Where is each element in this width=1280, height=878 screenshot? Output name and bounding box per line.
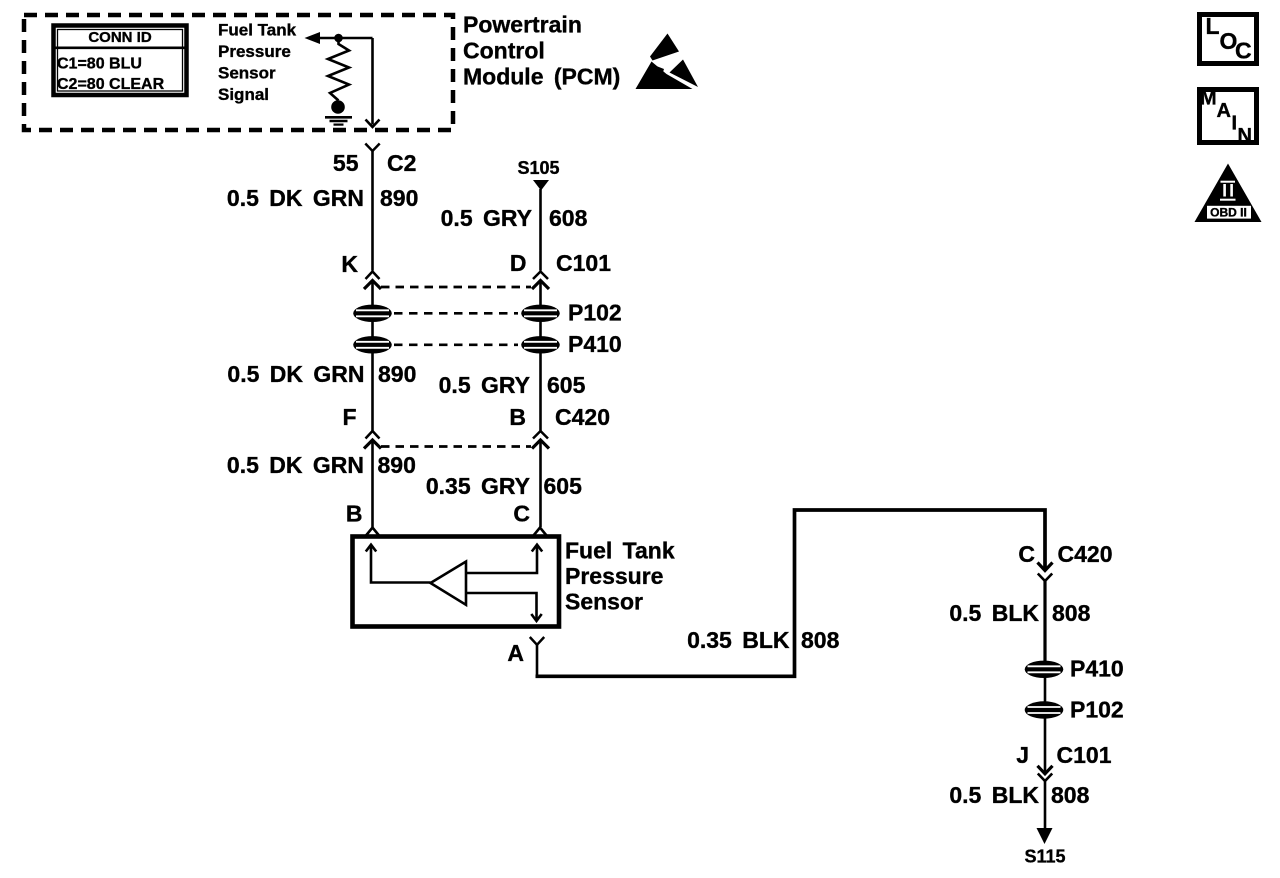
svg-text:A: A bbox=[507, 640, 524, 666]
resistor (PCM internal pull-up) bbox=[328, 38, 349, 101]
label P102 bbox=[568, 300, 622, 326]
svg-text:C1=80 BLU: C1=80 BLU bbox=[57, 56, 142, 73]
svg-text:J: J bbox=[1016, 742, 1029, 768]
svg-text:808: 808 bbox=[1052, 600, 1091, 626]
svg-text:0.5 GRY: 0.5 GRY bbox=[439, 372, 530, 398]
svg-text:808: 808 bbox=[801, 627, 840, 653]
fuel tank pressure sensor box bbox=[353, 537, 560, 627]
svg-text:OBD II: OBD II bbox=[1210, 205, 1247, 219]
sensor pin B bbox=[346, 501, 379, 536]
svg-text:Sensor: Sensor bbox=[565, 589, 643, 615]
svg-text:0.5 BLK: 0.5 BLK bbox=[949, 600, 1039, 626]
svg-text:L: L bbox=[1206, 13, 1220, 39]
connector C420 pin B bbox=[509, 404, 610, 449]
wire (PCM internal vertical) bbox=[371, 38, 374, 125]
connector C420 pin F bbox=[342, 404, 381, 449]
sensor pin A bbox=[507, 637, 544, 666]
svg-text:C2: C2 bbox=[387, 150, 416, 176]
CONN ID table bbox=[53, 26, 187, 96]
svg-text:C2=80 CLEAR: C2=80 CLEAR bbox=[57, 76, 165, 93]
svg-text:P102: P102 bbox=[568, 300, 622, 326]
svg-text:Sensor: Sensor bbox=[218, 64, 276, 83]
svg-text:C420: C420 bbox=[555, 404, 610, 430]
grommet P410 right bbox=[521, 336, 560, 353]
PCM module dashed outline bbox=[24, 15, 453, 130]
sensor internal wire to pin B bbox=[366, 545, 431, 583]
connector C101 pin K bbox=[341, 251, 381, 289]
connector C101 pin J bbox=[1016, 742, 1111, 781]
svg-text:C101: C101 bbox=[1057, 742, 1112, 768]
svg-text:608: 608 bbox=[549, 205, 588, 231]
splice S105 bbox=[517, 158, 559, 191]
svg-text:P410: P410 bbox=[568, 331, 622, 357]
svg-text:S105: S105 bbox=[517, 158, 559, 178]
svg-text:K: K bbox=[341, 251, 358, 277]
label: Fuel Tank Pressure Sensor bbox=[565, 538, 675, 615]
svg-text:Powertrain: Powertrain bbox=[463, 12, 582, 38]
label: Fuel Tank Pressure Sensor Signal bbox=[218, 21, 297, 105]
label P410 bbox=[568, 331, 622, 357]
sensor internal wire from pin C bbox=[466, 545, 542, 573]
wire bbox=[1044, 719, 1047, 773]
svg-text:0.5 DK GRN: 0.5 DK GRN bbox=[227, 452, 364, 478]
grommet P102 right bbox=[521, 305, 560, 322]
svg-text:S115: S115 bbox=[1024, 847, 1065, 867]
arrow at PCM boundary bbox=[366, 120, 380, 128]
svg-text:B: B bbox=[509, 404, 526, 430]
svg-text:C: C bbox=[513, 501, 530, 527]
svg-text:F: F bbox=[342, 404, 356, 430]
wire bbox=[371, 281, 374, 305]
svg-text:Fuel Tank: Fuel Tank bbox=[218, 21, 297, 40]
sensor pin C bbox=[513, 501, 546, 536]
PCM title bbox=[463, 12, 620, 90]
svg-text:C420: C420 bbox=[1058, 541, 1113, 567]
svg-text:0.5 DK GRN: 0.5 DK GRN bbox=[227, 361, 364, 387]
svg-text:55: 55 bbox=[333, 150, 359, 176]
svg-text:0.5 DK GRN: 0.5 DK GRN bbox=[227, 185, 364, 211]
wire 808 BLK (sensor A loop) bbox=[536, 510, 1046, 676]
grommet P410 left bbox=[353, 336, 392, 353]
arrow to sensor-signal label bbox=[305, 32, 321, 44]
svg-text:I: I bbox=[1232, 113, 1238, 135]
svg-text:B: B bbox=[346, 501, 363, 527]
wire bbox=[539, 281, 542, 305]
svg-text:C: C bbox=[1235, 38, 1252, 64]
wire (PCM internal horizontal) bbox=[316, 37, 373, 40]
dashed tie line P410 bbox=[394, 343, 518, 346]
sensor amplifier triangle bbox=[431, 562, 467, 605]
svg-text:Pressure: Pressure bbox=[565, 563, 663, 589]
svg-text:605: 605 bbox=[547, 372, 586, 398]
connector C420 pin C (right) bbox=[1018, 541, 1112, 581]
svg-text:Pressure: Pressure bbox=[218, 42, 291, 61]
svg-text:C101: C101 bbox=[556, 250, 611, 276]
svg-text:Module (PCM): Module (PCM) bbox=[463, 64, 620, 90]
svg-text:890: 890 bbox=[380, 185, 418, 211]
svg-text:890: 890 bbox=[378, 452, 416, 478]
svg-text:Control: Control bbox=[463, 38, 545, 64]
wire bbox=[1044, 677, 1047, 702]
wire 890 DK GRN (PCM to C101) bbox=[227, 151, 418, 271]
wire 605 GRY (P410 to C420) bbox=[439, 353, 586, 431]
ground (PCM internal) bbox=[325, 100, 352, 124]
svg-text:808: 808 bbox=[1051, 782, 1090, 808]
wire bbox=[371, 321, 374, 337]
grommet P102 left bbox=[353, 305, 392, 322]
wire 890 DK GRN (C420 to sensor) bbox=[227, 441, 416, 528]
svg-text:D: D bbox=[510, 250, 527, 276]
svg-text:N: N bbox=[1238, 125, 1252, 147]
svg-text:Signal: Signal bbox=[218, 85, 269, 104]
wire 808 BLK (C420 to P410) bbox=[949, 581, 1090, 661]
svg-text:0.35 GRY: 0.35 GRY bbox=[426, 473, 530, 499]
grommet P102 (right column) bbox=[1025, 697, 1124, 723]
svg-text:A: A bbox=[1217, 100, 1231, 122]
svg-text:CONN ID: CONN ID bbox=[88, 29, 152, 46]
icon MAIN bbox=[1200, 88, 1257, 148]
node junction dot bbox=[334, 34, 343, 43]
wire 808 BLK (C101 to S115) bbox=[949, 781, 1089, 830]
svg-text:P102: P102 bbox=[1070, 697, 1124, 723]
connector C2 pin 55 bbox=[333, 144, 417, 177]
svg-text:C: C bbox=[1018, 541, 1035, 567]
svg-text:M: M bbox=[1200, 88, 1217, 110]
svg-text:Fuel Tank: Fuel Tank bbox=[565, 538, 675, 564]
svg-text:605: 605 bbox=[544, 473, 583, 499]
icon OBD II bbox=[1195, 164, 1262, 223]
dashed tie line C101 bbox=[381, 286, 531, 289]
svg-text:P410: P410 bbox=[1070, 656, 1124, 682]
wire 890 DK GRN (P410 to C420) bbox=[227, 353, 416, 431]
wire 605 GRY (C420 to sensor) bbox=[426, 441, 582, 528]
connector C101 pin D bbox=[510, 250, 611, 289]
icon LOC bbox=[1200, 13, 1257, 64]
dashed tie line P102 bbox=[394, 312, 518, 315]
wire 608 GRY (S105 to C101) bbox=[441, 189, 588, 271]
sensor internal wire to pin A bbox=[466, 593, 542, 621]
icon ESD bbox=[636, 34, 699, 90]
wire bbox=[539, 321, 542, 337]
splice S115 bbox=[1024, 828, 1065, 867]
svg-text:0.5 GRY: 0.5 GRY bbox=[441, 205, 532, 231]
dashed tie line C420 bbox=[381, 445, 531, 448]
grommet P410 (right column) bbox=[1025, 656, 1124, 682]
svg-text:890: 890 bbox=[378, 361, 416, 387]
svg-text:0.35 BLK: 0.35 BLK bbox=[687, 627, 790, 653]
svg-text:0.5 BLK: 0.5 BLK bbox=[949, 782, 1039, 808]
